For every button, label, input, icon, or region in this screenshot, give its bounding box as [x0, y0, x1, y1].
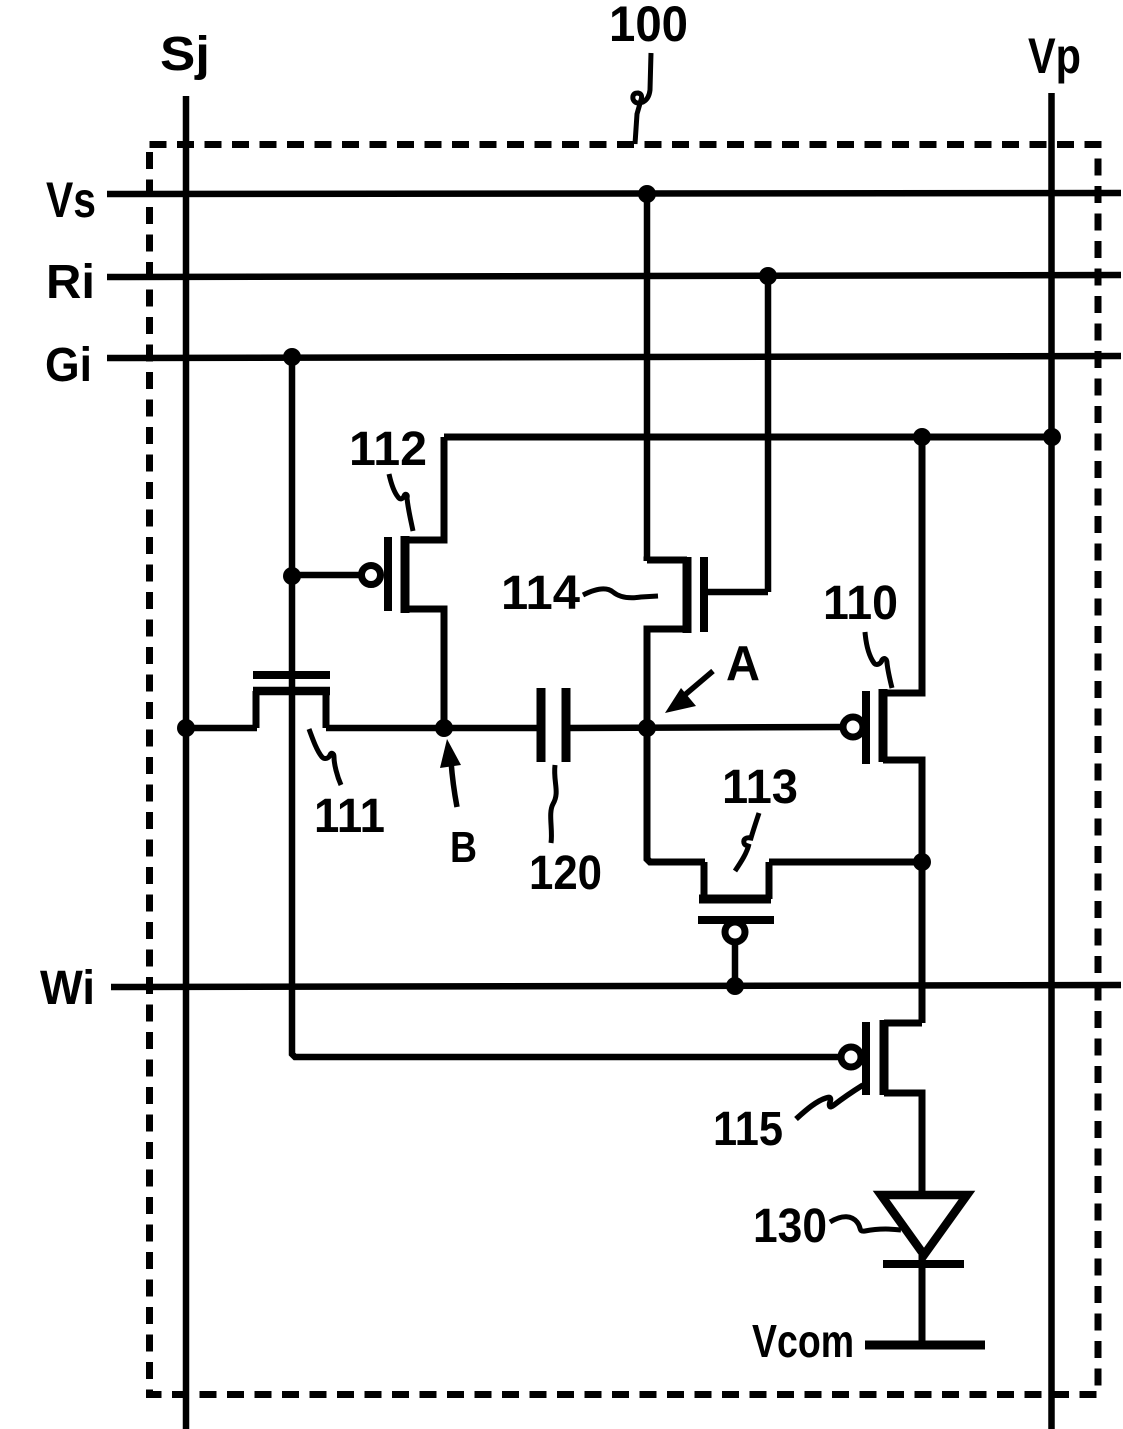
gate bubble of 113	[725, 922, 745, 942]
drain arm of 115	[884, 1020, 922, 1027]
svg-text:B: B	[450, 823, 477, 872]
arrow pointing at node A	[680, 671, 713, 699]
left arm of 113 from node A drop	[647, 728, 705, 862]
dashed border of pixel cell 100	[150, 145, 1099, 1395]
cathode lead of 130	[919, 1255, 926, 1345]
wire: drop from Gi down, corner to gate wire of 115	[292, 357, 842, 1057]
wire: capacitor to node A to gate of 110	[566, 727, 844, 728]
source arm of 114	[647, 629, 687, 728]
node: junction dot Vs / drop wire	[638, 185, 656, 203]
wire: 111 to node B to capacitor 120	[326, 725, 537, 732]
right arm of 113 to 110 source	[769, 859, 922, 866]
channel bar of 112	[401, 536, 410, 613]
drain arm of 110	[883, 437, 922, 693]
svg-text:114: 114	[501, 567, 580, 620]
gate bubble of 110	[843, 717, 863, 737]
node A dot	[638, 719, 656, 737]
svg-text:115: 115	[713, 1103, 783, 1156]
arrow pointing at node B	[451, 761, 457, 807]
svg-text:120: 120	[529, 847, 602, 900]
source arm of 112	[405, 609, 444, 728]
leader from 100 to dashed border	[633, 53, 651, 144]
wire: Sj to transistor 111	[186, 725, 257, 732]
row line Vs	[107, 193, 1121, 194]
leader from 114 label	[583, 589, 658, 598]
transistor Q111 (NMOS, inline, gate on top)	[253, 675, 330, 728]
node: junction dot 113 arm / 110 source	[913, 853, 931, 871]
svg-text:112: 112	[349, 423, 427, 476]
leader from 112 label	[389, 474, 413, 531]
leader from 113 label	[735, 813, 759, 871]
leader from 130 label	[830, 1217, 901, 1231]
gate lead of 114	[704, 589, 768, 596]
terminal Vcom	[865, 1341, 985, 1350]
gate bar of 115	[862, 1022, 870, 1095]
wire: drop from Vs to transistor 114 drain	[644, 194, 651, 561]
node B dot	[435, 719, 453, 737]
right stub of 113	[766, 862, 773, 899]
cathode bar of 130	[883, 1260, 964, 1268]
wire: gate lead of 112	[292, 572, 362, 579]
transistor Q115 (PMOS, gate bubble left)	[841, 1020, 922, 1197]
svg-text:Gi: Gi	[45, 339, 92, 392]
column line Sj	[183, 96, 190, 1429]
source arm of 115	[884, 1093, 922, 1197]
left plate of 120	[537, 688, 546, 762]
top supply rail from 112 drain to Vp	[444, 434, 1052, 441]
drain arm of 114	[647, 560, 687, 561]
row line Gi	[107, 356, 1121, 358]
row line Wi	[111, 985, 1121, 987]
node: junction dot gate 113 / Wi	[726, 977, 744, 995]
channel bar of 110	[879, 689, 888, 762]
source arm of 110	[883, 760, 922, 862]
left stub of 111	[253, 691, 260, 728]
svg-text:Ri: Ri	[46, 256, 95, 309]
transistor Q110 (PMOS, gate bubble left)	[843, 437, 922, 862]
svg-text:Vp: Vp	[1028, 28, 1081, 84]
diode D130 (anode up, cathode bar below)	[881, 1195, 967, 1345]
gate bar of 110	[862, 691, 870, 764]
triangle of 130	[881, 1195, 967, 1255]
svg-text:Wi: Wi	[40, 962, 95, 1015]
svg-text:113: 113	[722, 761, 798, 814]
svg-text:100: 100	[609, 0, 688, 52]
node: junction dot Ri / drop wire	[759, 267, 777, 285]
transistor Q112 (PMOS, gate bubble left)	[362, 437, 445, 728]
leader from 111 label	[309, 729, 341, 785]
channel bar of 111	[253, 687, 330, 696]
svg-text:130: 130	[753, 1200, 827, 1253]
leader from 110 label	[865, 632, 892, 688]
svg-text:110: 110	[823, 577, 898, 630]
right stub of 111	[323, 691, 330, 728]
drain arm of 112	[405, 437, 444, 540]
svg-text:Sj: Sj	[160, 28, 210, 81]
node: tee dot on Gi drop to gate of 112	[283, 567, 301, 585]
leader from 120 label	[551, 765, 556, 843]
gate bubble of 115	[841, 1047, 861, 1067]
svg-text:Vs: Vs	[46, 172, 96, 228]
svg-text:A: A	[726, 637, 760, 691]
leader from 115 label	[796, 1085, 863, 1119]
capacitor C120	[541, 688, 566, 762]
gate bubble of 112	[362, 566, 381, 585]
channel bar of 114	[683, 557, 692, 633]
row line Ri	[107, 275, 1121, 277]
gate lead of 113 to Wi	[732, 943, 739, 986]
channel bar of 115	[880, 1020, 889, 1095]
node: junction dot Sj / storage wire	[177, 719, 195, 737]
svg-text:Vcom: Vcom	[752, 1315, 854, 1367]
gate bar of 114	[700, 557, 708, 632]
left stub of 113	[701, 862, 708, 899]
svg-text:111: 111	[314, 790, 385, 843]
transistor Q114 (NMOS, gate right)	[647, 557, 768, 728]
node: dot rail / Vp	[1043, 428, 1061, 446]
column line Vp	[1048, 93, 1055, 1429]
gate bar of 113	[698, 916, 774, 924]
node: junction dot Gi / drop wire	[283, 348, 301, 366]
wire: drop from Ri to gate of 114	[765, 276, 772, 592]
transistor Q113 (PMOS, horizontal, gate bubble below)	[647, 728, 922, 986]
channel bar of 113	[699, 895, 771, 904]
gate bar of 111	[253, 671, 330, 679]
wire: 110 source down through Wi to transistor 115	[919, 862, 926, 1023]
node: dot rail / 110 drain branch	[913, 428, 931, 446]
gate bar of 112	[384, 537, 392, 611]
right plate of 120	[562, 688, 571, 762]
